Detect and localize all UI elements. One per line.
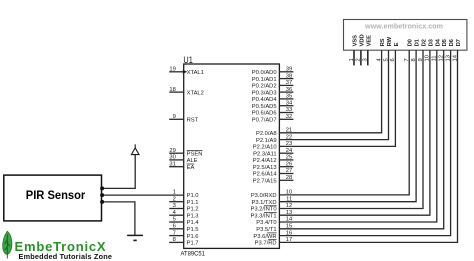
svg-text:38: 38 (286, 73, 292, 79)
svg-text:Embedded Tutorials Zone: Embedded Tutorials Zone (19, 252, 113, 261)
svg-text:29: 29 (169, 148, 175, 154)
svg-text:2: 2 (173, 196, 176, 202)
svg-text:P0.4/AD4: P0.4/AD4 (252, 97, 278, 103)
svg-text:D6: D6 (449, 38, 455, 46)
svg-text:D5: D5 (442, 38, 448, 46)
svg-text:P1.0: P1.0 (187, 193, 199, 199)
svg-text:P3.1/TXD: P3.1/TXD (251, 200, 276, 206)
power symbol (VCC arrow) (131, 148, 139, 155)
LCD connector J1 body (344, 20, 467, 51)
wire P3.7 to LCD D7 (279, 50, 457, 242)
pin 37 P0.2/AD2 stub (279, 84, 293, 86)
chip U1 body (AT89C51) (184, 64, 280, 248)
svg-text:VDD: VDD (359, 34, 365, 46)
svg-text:5: 5 (173, 217, 176, 223)
svg-text:37: 37 (286, 80, 292, 86)
svg-text:P3.3/INT1: P3.3/INT1 (250, 213, 276, 219)
svg-text:24: 24 (286, 148, 293, 154)
pin 29 PSEN stub (169, 152, 184, 154)
wire P2.1 to LCD RW (279, 50, 388, 139)
svg-text:2: 2 (356, 58, 362, 61)
LCD pin 3 stub (VEE) (367, 50, 369, 65)
wire PIR GND to ground (102, 202, 135, 235)
pin 18 XTAL2 stub (169, 91, 184, 93)
svg-text:26: 26 (286, 161, 292, 167)
svg-text:D3: D3 (428, 38, 434, 46)
wire P2.2 to LCD E (279, 50, 395, 146)
svg-text:P0.0/AD0: P0.0/AD0 (252, 70, 277, 76)
pin 24 P2.3/A11 stub (279, 152, 293, 154)
svg-text:P3.0/RXD: P3.0/RXD (251, 193, 277, 199)
wire P3.0 to LCD D0 (279, 50, 409, 195)
pin 35 P0.4/AD4 stub (279, 98, 293, 100)
svg-text:ALE: ALE (187, 158, 198, 164)
svg-text:XTAL1: XTAL1 (187, 70, 204, 76)
svg-text:AT89C51: AT89C51 (181, 250, 206, 257)
svg-text:P1.2: P1.2 (187, 207, 199, 213)
svg-text:PIR Sensor: PIR Sensor (26, 190, 86, 202)
svg-text:3: 3 (363, 58, 369, 61)
pin 27 P2.6/A14 stub (279, 173, 293, 175)
svg-text:P3.6/WR: P3.6/WR (253, 234, 276, 240)
svg-text:E: E (394, 42, 400, 46)
svg-text:27: 27 (286, 168, 292, 174)
svg-text:P1.5: P1.5 (187, 227, 199, 233)
svg-text:P2.6/A14: P2.6/A14 (253, 172, 278, 178)
overline INT1 (264, 212, 277, 214)
LCD pin 1 stub (VSS) (353, 50, 355, 65)
svg-text:www.embetronicx.com: www.embetronicx.com (364, 22, 443, 31)
svg-text:P2.4/A12: P2.4/A12 (253, 158, 277, 164)
overline RD (268, 239, 276, 241)
pin 36 P0.3/AD3 stub (279, 91, 293, 93)
svg-text:P0.6/AD6: P0.6/AD6 (252, 111, 277, 117)
pin 2 P1.1 stub (169, 201, 184, 203)
svg-text:8: 8 (173, 237, 176, 243)
pin 9 RST stub (169, 118, 184, 120)
svg-text:3: 3 (173, 203, 176, 209)
pin 8 P1.7 stub (169, 241, 184, 243)
svg-text:36: 36 (286, 87, 292, 93)
wire PIR VCC to power (102, 155, 136, 189)
junction node PIR VCC (100, 186, 104, 190)
svg-text:33: 33 (286, 107, 292, 113)
wire P3.3 to LCD D3 (279, 50, 430, 215)
LCD pin 2 stub (VDD) (360, 50, 362, 65)
pin 3 P1.2 stub (169, 208, 184, 210)
svg-text:P1.1: P1.1 (187, 200, 199, 206)
wire P3.1 to LCD D1 (279, 50, 416, 202)
ground symbol (127, 234, 143, 236)
svg-text:PSEN: PSEN (187, 151, 203, 157)
svg-text:D4: D4 (435, 38, 441, 46)
svg-text:U1: U1 (183, 55, 192, 66)
svg-text:32: 32 (286, 114, 292, 120)
svg-text:D2: D2 (422, 39, 428, 46)
svg-text:P1.6: P1.6 (187, 234, 199, 240)
pin 28 P2.7/A15 stub (279, 179, 293, 181)
svg-text:RS: RS (380, 38, 386, 46)
svg-text:P2.0/A8: P2.0/A8 (256, 131, 277, 137)
svg-text:P0.1/AD1: P0.1/AD1 (252, 77, 277, 83)
svg-text:39: 39 (286, 67, 292, 73)
wire P3.2 to LCD D2 (279, 50, 423, 208)
pin 33 P0.6/AD6 stub (279, 112, 293, 114)
svg-text:P0.7/AD7: P0.7/AD7 (252, 118, 277, 124)
wire P2.0 to LCD RS (279, 50, 381, 133)
svg-text:XTAL2: XTAL2 (187, 90, 204, 96)
wire P3.4 to LCD D4 (279, 50, 436, 222)
pin 38 P0.1/AD1 stub (279, 78, 293, 80)
pin 34 P0.5/AD5 stub (279, 105, 293, 107)
pin 31 EA stub (169, 166, 184, 168)
svg-text:30: 30 (169, 155, 175, 161)
svg-text:P0.3/AD3: P0.3/AD3 (252, 90, 277, 96)
pin 26 P2.5/A13 stub (279, 166, 293, 168)
svg-text:D0: D0 (408, 39, 414, 46)
svg-text:RST: RST (187, 118, 199, 124)
svg-text:VEE: VEE (366, 35, 372, 47)
svg-text:7: 7 (173, 230, 176, 236)
pin 19 XTAL1 stub (169, 71, 184, 73)
svg-text:35: 35 (286, 94, 292, 100)
overline INT0 (264, 205, 277, 207)
svg-text:EA: EA (187, 165, 195, 171)
wire PIR OUT to P1.0 (102, 194, 184, 196)
pin 7 P1.6 stub (169, 235, 184, 237)
wire P3.6 to LCD D6 (279, 50, 450, 235)
pin 25 P2.4/A12 stub (279, 159, 293, 161)
svg-text:9: 9 (173, 114, 176, 120)
junction node PIR GND (100, 200, 104, 204)
overline WR (267, 232, 277, 234)
svg-text:P3.4/T0: P3.4/T0 (256, 220, 276, 226)
svg-text:P2.3/A11: P2.3/A11 (253, 151, 276, 157)
pin 39 P0.0/AD0 stub (279, 71, 293, 73)
svg-text:31: 31 (169, 161, 175, 167)
svg-text:P2.5/A13: P2.5/A13 (253, 165, 277, 171)
svg-text:D1: D1 (415, 38, 421, 46)
svg-text:P0.5/AD5: P0.5/AD5 (252, 104, 277, 110)
svg-text:P0.2/AD2: P0.2/AD2 (252, 84, 277, 90)
svg-text:VSS: VSS (353, 35, 359, 47)
junction node PIR OUT (100, 193, 104, 197)
svg-text:P3.2/INT0: P3.2/INT0 (250, 207, 276, 213)
svg-text:25: 25 (286, 155, 292, 161)
svg-text:P2.7/A15: P2.7/A15 (253, 179, 277, 185)
svg-text:34: 34 (286, 100, 293, 106)
pin 4 P1.3 stub (169, 214, 184, 216)
pin 32 P0.7/AD7 stub (279, 118, 293, 120)
svg-text:P2.1/A9: P2.1/A9 (256, 138, 277, 144)
svg-text:P3.5/T1: P3.5/T1 (256, 227, 276, 233)
XTAL1 input arrow (183, 70, 187, 74)
wire P3.5 to LCD D5 (279, 50, 443, 229)
svg-text:P1.4: P1.4 (187, 220, 200, 226)
svg-text:P2.2/A10: P2.2/A10 (253, 145, 277, 151)
overline PSEN (187, 150, 203, 152)
pin 6 P1.5 stub (169, 228, 184, 230)
svg-text:1: 1 (349, 58, 355, 61)
pin 5 P1.4 stub (169, 221, 184, 223)
svg-text:18: 18 (169, 87, 175, 93)
overline EA (187, 163, 195, 165)
svg-text:RW: RW (387, 36, 393, 46)
svg-text:P1.7: P1.7 (187, 241, 199, 247)
svg-text:P3.7/RD: P3.7/RD (255, 241, 277, 247)
PIR sensor module body (4, 175, 102, 221)
svg-text:D7: D7 (456, 39, 462, 46)
svg-text:19: 19 (169, 67, 175, 73)
svg-text:P1.3: P1.3 (187, 213, 199, 219)
pin 30 ALE stub (169, 159, 184, 161)
svg-text:6: 6 (173, 224, 176, 230)
EmbeTronicX logo tree icon (3, 231, 12, 258)
svg-text:28: 28 (286, 175, 292, 181)
